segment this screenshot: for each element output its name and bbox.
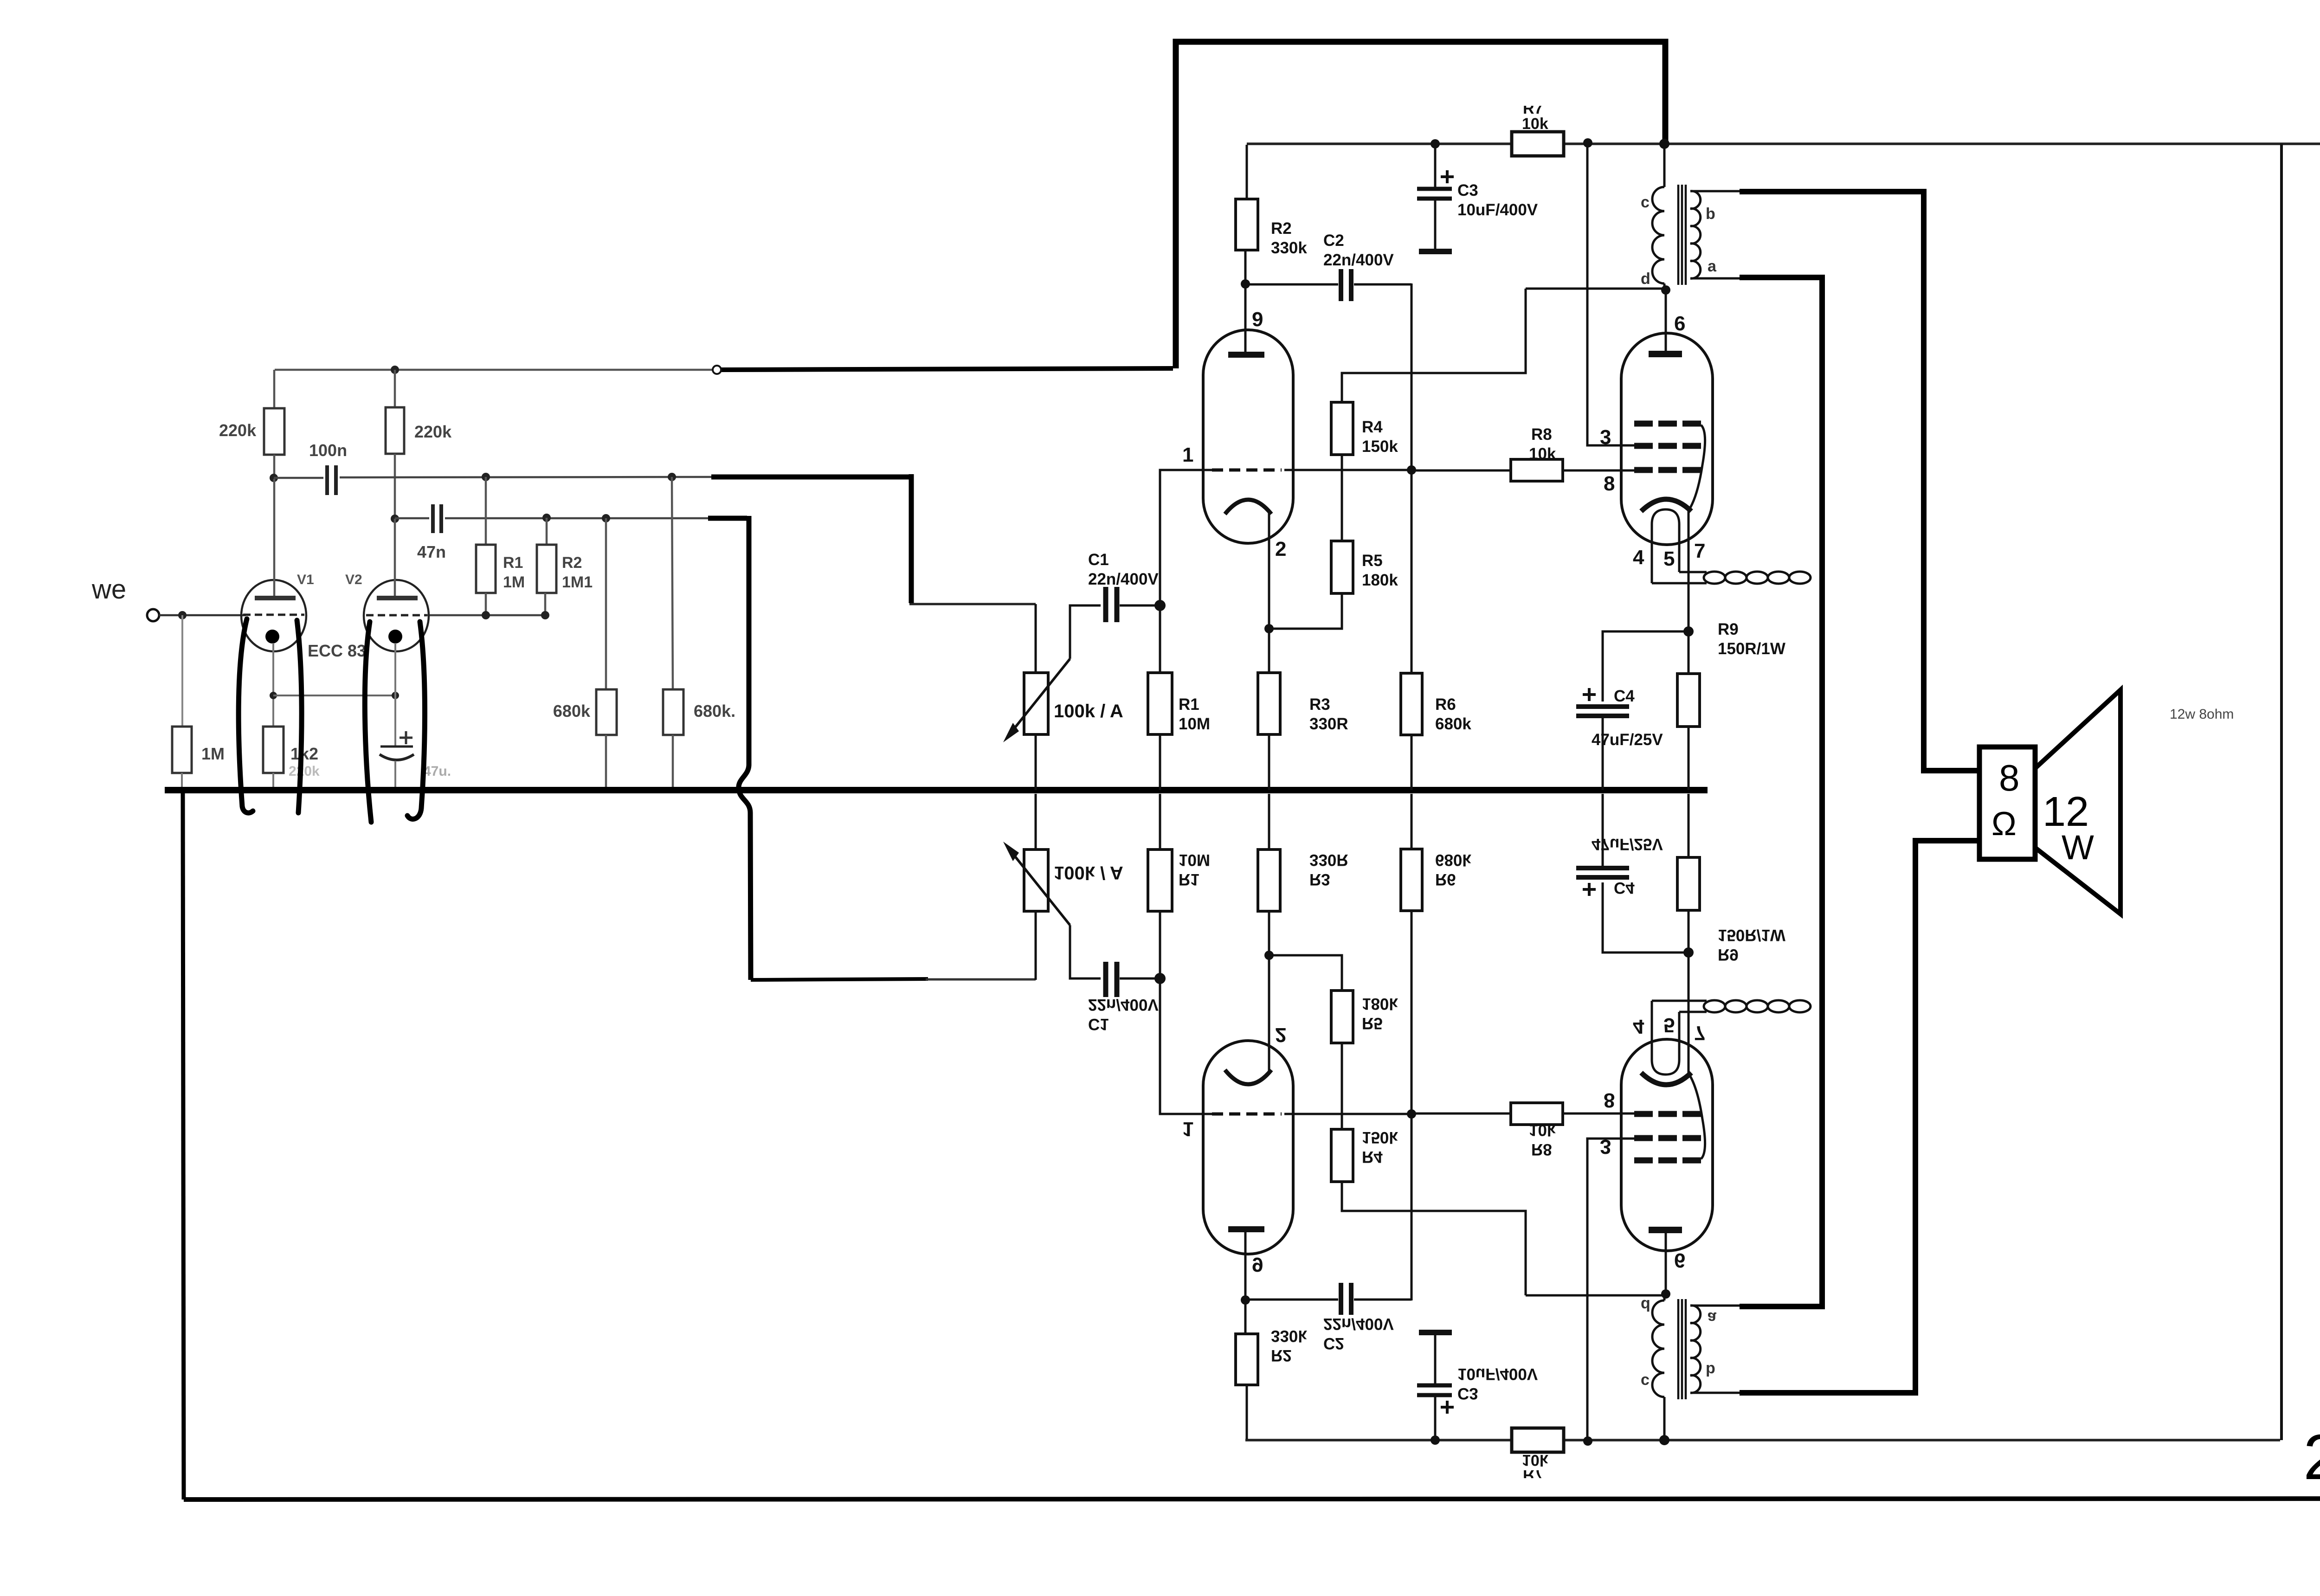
- driver tube cathode lead (lower mirrored): [1268, 955, 1270, 1074]
- resistor R1 10M: [1159, 605, 1161, 673]
- wire pot-top lead (lower mirrored): [1035, 911, 1037, 980]
- svg-text:C2: C2: [1323, 1334, 1344, 1352]
- driver tube cathode lead: [1268, 510, 1270, 629]
- resistor 680k right: [672, 477, 673, 689]
- wire b bottom to speaker: [1740, 841, 1979, 1393]
- resistor 1M input load: [181, 615, 183, 727]
- wire d to feedback tap: [1526, 288, 1666, 290]
- tube V1 (ECC83 a) envelope: [241, 580, 306, 651]
- node driver cathode junction: [1264, 624, 1274, 633]
- svg-text:2: 2: [1275, 1023, 1286, 1046]
- output tube grid strap curve: [1690, 425, 1705, 508]
- svg-text:a: a: [1708, 1309, 1717, 1326]
- wire C1 left lead: [1070, 605, 1101, 659]
- svg-text:47uF/25V: 47uF/25V: [1592, 835, 1663, 853]
- svg-text:C3: C3: [1457, 181, 1478, 199]
- svg-text:R3: R3: [1309, 695, 1330, 714]
- output tube anode bar (lower mirrored): [1649, 1227, 1682, 1233]
- output tube grid row 1 (lower mirrored): [1634, 1158, 1653, 1164]
- wire C4 top link: [1603, 631, 1688, 701]
- hand stroke V1 left: [238, 619, 253, 813]
- wire cathode link: [273, 695, 395, 696]
- svg-text:R5: R5: [1362, 1014, 1383, 1032]
- wire C2 output drop: [1411, 283, 1413, 470]
- wire C1 left lead (lower mirrored): [1070, 925, 1101, 978]
- output tube anode lead pin 6: [1665, 290, 1667, 351]
- wire heater leads: [1652, 582, 1707, 585]
- output tube grid row 1: [1634, 421, 1653, 427]
- wire d to feedback tap (lower mirrored): [1526, 1294, 1666, 1297]
- svg-text:1: 1: [1182, 1118, 1193, 1140]
- wire input-stage supply top: [275, 369, 713, 371]
- wire B+ rail bottom: [1245, 1439, 2280, 1442]
- V2 grid dashes: [366, 614, 427, 617]
- node driver anode junction (lower mirrored): [1241, 1295, 1250, 1305]
- svg-text:R8: R8: [1531, 425, 1552, 444]
- resistor R9 150R/1W: [1688, 631, 1690, 674]
- svg-text:8: 8: [1604, 1089, 1615, 1112]
- wire 220k to anode node: [273, 455, 276, 479]
- svg-text:100k / A: 100k / A: [1054, 862, 1123, 883]
- node 680k right top junction: [668, 473, 676, 481]
- resistor 1k2 cathode: [263, 727, 284, 773]
- output tube grid strap curve (lower mirrored): [1690, 1076, 1705, 1159]
- wire heater leads (lower mirrored): [1652, 1000, 1707, 1002]
- transformer T1 primary winding c-d: [1663, 144, 1666, 187]
- svg-text:4: 4: [1633, 1015, 1644, 1038]
- svg-text:150k: 150k: [1362, 438, 1398, 456]
- svg-text:22n/400V: 22n/400V: [1323, 251, 1394, 269]
- svg-text:10k: 10k: [1529, 445, 1556, 463]
- capacitor C2 22n/400V: [1245, 283, 1338, 286]
- node C1/R1/grid junction (lower mirrored): [1154, 973, 1166, 984]
- V1 anode lead: [273, 479, 276, 596]
- resistor R6 680k (lower mirrored): [1411, 911, 1413, 1114]
- node V1 anode junction: [270, 474, 278, 482]
- svg-text:10uF/400V: 10uF/400V: [1457, 1365, 1538, 1383]
- V2 anode lead inside: [394, 519, 396, 596]
- wire b top to speaker: [1740, 192, 1979, 771]
- wire B+ rail top: [1247, 142, 2320, 145]
- svg-text:220k: 220k: [289, 764, 320, 779]
- wire C4 top link (lower mirrored): [1603, 882, 1688, 952]
- svg-text:100n: 100n: [309, 441, 347, 460]
- svg-text:R2: R2: [1271, 219, 1292, 238]
- node cathode R9/C4 junction (lower mirrored): [1683, 947, 1694, 958]
- svg-text:C2: C2: [1323, 232, 1344, 250]
- svg-text:12w 8ohm: 12w 8ohm: [2170, 707, 2234, 722]
- potentiometer wiper arrow (lower mirrored): [1011, 851, 1070, 925]
- tube V2 (ECC83 b) envelope: [364, 580, 429, 651]
- output tube anode lead pin 6 (lower mirrored): [1665, 1233, 1667, 1294]
- tube V5 output pentode envelope: [1621, 333, 1713, 545]
- resistor R4 150k (lower mirrored): [1331, 1129, 1353, 1182]
- resistor R9 150R/1W (lower mirrored): [1688, 910, 1690, 952]
- wire thick B+ loop to rail: [1176, 42, 1665, 368]
- wire R4-R5 link: [1341, 455, 1343, 541]
- node driver anode junction: [1241, 279, 1250, 289]
- capacitor C1 22n/400V (lower mirrored): [1103, 962, 1108, 997]
- output tube grid row 2: [1634, 443, 1653, 449]
- node 220k right top junction: [391, 366, 399, 374]
- svg-text:W: W: [2062, 828, 2094, 867]
- resistor R8 10k: [1411, 470, 1511, 472]
- svg-text:10k: 10k: [1522, 115, 1548, 133]
- svg-text:5: 5: [1663, 547, 1675, 570]
- resistor R5 180k: [1331, 541, 1353, 593]
- speaker terminal box: [1979, 747, 2035, 859]
- node R2 1M1 top junction: [542, 514, 551, 522]
- wire 240v- return line: [184, 1499, 2320, 1499]
- output tube cathode arc: [1641, 499, 1691, 511]
- wire secondary a thick top: [1740, 275, 1825, 280]
- hand stroke V1 right: [297, 620, 302, 813]
- V2 cathode lead: [394, 643, 396, 747]
- svg-text:6: 6: [1674, 1249, 1685, 1272]
- svg-text:9: 9: [1252, 308, 1263, 331]
- svg-text:1k2: 1k2: [290, 744, 318, 763]
- svg-text:680k.: 680k.: [694, 701, 735, 721]
- svg-text:ECC 83: ECC 83: [308, 641, 366, 660]
- capacitor C3 10uF/400V (lower mirrored): [1434, 1397, 1437, 1440]
- svg-text:a: a: [1708, 257, 1717, 275]
- svg-text:R1: R1: [503, 554, 523, 572]
- svg-text:C1: C1: [1088, 1015, 1109, 1033]
- svg-text:150R/1W: 150R/1W: [1718, 926, 1785, 944]
- V2 anode bar: [377, 596, 418, 600]
- svg-text:V2: V2: [345, 572, 362, 587]
- potentiometer 100k/A body (lower mirrored): [1024, 849, 1048, 911]
- driver tube anode lead (lower mirrored): [1244, 1232, 1247, 1300]
- node output grid junction: [1407, 465, 1416, 475]
- connector ring on supply wire: [713, 366, 721, 374]
- svg-text:330R: 330R: [1309, 715, 1348, 733]
- svg-text:1M: 1M: [201, 744, 225, 763]
- transformer T1 secondary winding b-a (lower mirrored): [1690, 1306, 1701, 1393]
- svg-text:R2: R2: [1271, 1346, 1292, 1364]
- hand stroke V2 left: [365, 622, 371, 822]
- wire driver grid to output grid node (lower mirrored): [1284, 1113, 1411, 1115]
- node C3 junction on supply rail (lower mirrored): [1431, 1435, 1440, 1445]
- svg-text:240: 240: [2303, 1422, 2320, 1493]
- svg-text:d: d: [1641, 270, 1650, 288]
- svg-text:R4: R4: [1362, 1148, 1383, 1166]
- svg-text:3: 3: [1600, 1135, 1611, 1158]
- svg-text:R3: R3: [1309, 870, 1330, 888]
- V1 grid dashes: [243, 614, 304, 616]
- svg-text:220k: 220k: [219, 421, 257, 440]
- node 680k left top junction: [602, 514, 610, 522]
- node input junction: [178, 611, 187, 619]
- svg-text:330k: 330k: [1271, 239, 1307, 257]
- svg-text:180k: 180k: [1362, 995, 1398, 1013]
- transformer T1 secondary winding b-a: [1690, 191, 1701, 278]
- wire R4-R5 link (lower mirrored): [1341, 1043, 1343, 1129]
- resistor R2 330k: [1246, 145, 1248, 199]
- svg-text:R5: R5: [1362, 552, 1383, 570]
- heater twisted pair (lower mirrored): [1704, 1000, 1725, 1012]
- svg-text:5: 5: [1663, 1014, 1675, 1036]
- svg-text:C4: C4: [1614, 879, 1635, 897]
- node R1 bottom on V2 grid: [482, 611, 490, 619]
- tube V3 driver (ECC83 half) envelope: [1203, 330, 1293, 543]
- capacitor C1 22n/400V: [1103, 587, 1108, 622]
- output tube grid row 2 (lower mirrored): [1634, 1135, 1653, 1141]
- svg-text:R1: R1: [1179, 695, 1199, 714]
- resistor 220k (V2 anode load): [394, 370, 396, 407]
- capacitor C4 47uF/25V: [1583, 693, 1596, 696]
- svg-text:680k: 680k: [1435, 851, 1471, 869]
- svg-text:10uF/400V: 10uF/400V: [1457, 201, 1538, 219]
- svg-text:22n/400V: 22n/400V: [1088, 996, 1159, 1014]
- node driver cathode junction (lower mirrored): [1264, 951, 1274, 960]
- svg-text:9: 9: [1252, 1253, 1263, 1276]
- resistor R3 330R: [1268, 629, 1270, 673]
- hand stroke V2 right: [407, 622, 425, 819]
- resistor R2 1M1 grid divider: [546, 518, 548, 545]
- transformer T1 core: [1677, 185, 1680, 285]
- wire secondary a-a tie: [1819, 277, 1825, 1308]
- svg-text:47u.: 47u.: [423, 764, 451, 779]
- wire left ground drop: [183, 792, 184, 1499]
- svg-text:8: 8: [1999, 757, 2020, 798]
- output tube cathode lead pin 7 (lower mirrored): [1688, 952, 1690, 1074]
- svg-text:7: 7: [1694, 540, 1705, 562]
- output tube grid row 3: [1634, 467, 1653, 473]
- transformer T1 core (lower mirrored): [1677, 1299, 1680, 1399]
- svg-text:220k: 220k: [414, 422, 452, 441]
- transformer T1 primary winding c-d (lower mirrored): [1663, 1397, 1666, 1440]
- node R1 1M top junction: [482, 473, 490, 481]
- capacitor 100n coupling: [274, 477, 323, 479]
- output tube heater loop pins 4-5: [1652, 509, 1679, 583]
- svg-text:R6: R6: [1435, 695, 1456, 714]
- svg-text:R9: R9: [1718, 620, 1739, 638]
- wire A lower to pot: [751, 979, 928, 980]
- resistor 680k left: [605, 518, 607, 689]
- output tube heater loop pins 4-5 (lower mirrored): [1652, 1001, 1679, 1075]
- potentiometer wiper arrow: [1011, 659, 1070, 733]
- svg-text:1M1: 1M1: [562, 573, 593, 591]
- svg-text:10k: 10k: [1529, 1121, 1556, 1139]
- node C3 junction on supply rail: [1431, 139, 1440, 148]
- speaker horn: [2035, 690, 2120, 914]
- heater twisted pair: [1704, 572, 1725, 584]
- svg-text:10M: 10M: [1179, 851, 1210, 869]
- svg-text:b: b: [1706, 1361, 1715, 1379]
- svg-text:22n/400V: 22n/400V: [1323, 1315, 1394, 1333]
- wire feedback tap line (lower mirrored): [1342, 1182, 1526, 1295]
- svg-text:180k: 180k: [1362, 571, 1398, 589]
- tube V3 driver (ECC83 half) envelope (lower mirrored): [1203, 1041, 1293, 1254]
- driver tube cathode arc (lower mirrored): [1225, 1070, 1271, 1084]
- node C1/R1/grid junction: [1154, 600, 1166, 611]
- svg-text:c: c: [1641, 193, 1650, 211]
- svg-text:150k: 150k: [1362, 1128, 1398, 1146]
- output tube cathode lead pin 7: [1688, 510, 1690, 631]
- node cathode link left: [270, 692, 277, 699]
- node rail junction right of R7 (lower mirrored): [1583, 1436, 1592, 1446]
- svg-text:7: 7: [1694, 1022, 1705, 1044]
- wire secondary b lead: [1690, 190, 1740, 193]
- node rail junction right of R7: [1583, 138, 1592, 148]
- svg-text:d: d: [1641, 1296, 1650, 1314]
- wire grid feed of driver tube: [1160, 470, 1216, 605]
- resistor R5 180k (lower mirrored): [1331, 991, 1353, 1043]
- capacitor V2 cathode bypass: [400, 737, 412, 739]
- resistor R1 1M grid divider: [485, 477, 487, 545]
- resistor R6 680k: [1411, 470, 1413, 673]
- wire C2 output drop (lower mirrored): [1411, 1114, 1413, 1300]
- svg-text:R1: R1: [1179, 870, 1199, 888]
- wire grid feed of driver tube (lower mirrored): [1160, 978, 1216, 1114]
- node cathode link right: [392, 692, 399, 699]
- svg-text:1: 1: [1182, 444, 1193, 466]
- svg-text:10k: 10k: [1522, 1451, 1548, 1469]
- svg-text:680k: 680k: [553, 701, 591, 721]
- driver tube grid dashes (lower mirrored): [1212, 1113, 1282, 1116]
- node output grid junction (lower mirrored): [1407, 1109, 1416, 1119]
- wire secondary b lead (lower mirrored): [1690, 1392, 1740, 1394]
- svg-text:C4: C4: [1614, 687, 1635, 705]
- svg-text:330k: 330k: [1271, 1327, 1307, 1345]
- svg-text:R9: R9: [1718, 946, 1739, 964]
- svg-text:R6: R6: [1435, 870, 1456, 888]
- node transformer d junction (lower mirrored): [1661, 1289, 1670, 1299]
- tube V5 output pentode envelope (lower mirrored): [1621, 1039, 1713, 1251]
- driver tube anode bar (lower mirrored): [1228, 1226, 1264, 1232]
- resistor 220k (V1 anode load): [273, 370, 276, 408]
- potentiometer bottom lead wire: [1035, 734, 1037, 790]
- driver tube anode lead: [1244, 284, 1247, 352]
- node transformer d junction: [1661, 285, 1670, 295]
- resistor R1 10M (lower mirrored): [1159, 911, 1161, 978]
- svg-text:47uF/25V: 47uF/25V: [1592, 731, 1663, 749]
- wire feedback tap line: [1342, 289, 1526, 402]
- driver tube anode bar: [1228, 352, 1264, 358]
- svg-text:we: we: [91, 574, 126, 605]
- driver tube cathode arc: [1225, 500, 1271, 514]
- resistor R7 10k on supply rail (lower mirrored): [1512, 1428, 1564, 1452]
- svg-text:680k: 680k: [1435, 715, 1471, 733]
- node transformer c junction on rail: [1659, 139, 1669, 149]
- svg-text:100k / A: 100k / A: [1054, 701, 1123, 721]
- wire A to pot top: [909, 603, 1036, 605]
- svg-text:V1: V1: [297, 572, 314, 587]
- capacitor C4 47uF/25V (lower mirrored): [1583, 888, 1596, 891]
- wire input to V1 grid: [159, 614, 246, 617]
- V2 cathode dot: [388, 630, 402, 644]
- output tube anode bar: [1649, 351, 1682, 357]
- svg-text:2: 2: [1275, 538, 1286, 560]
- svg-text:b: b: [1706, 205, 1715, 223]
- svg-text:6: 6: [1674, 312, 1685, 335]
- wire screen grid feed pin 3 (lower mirrored): [1587, 1139, 1638, 1441]
- resistor R7 10k on supply rail: [1512, 132, 1564, 156]
- V1 cathode dot: [265, 630, 279, 644]
- wire V2 grid line: [427, 614, 548, 617]
- wire screen grid feed pin 3: [1587, 143, 1638, 445]
- potentiometer bottom lead wire (lower mirrored): [1035, 794, 1037, 849]
- wire thick V2 output drop to lower pot: [708, 516, 747, 521]
- resistor R4 150k: [1331, 402, 1353, 455]
- potentiometer 100k/A body: [1024, 673, 1048, 734]
- svg-text:4: 4: [1633, 546, 1644, 569]
- svg-text:10M: 10M: [1179, 715, 1210, 733]
- svg-text:C3: C3: [1457, 1384, 1478, 1403]
- wire right supply rail: [2280, 144, 2283, 1440]
- wire thick feedback to top pot: [711, 475, 911, 480]
- wire R5 to cathode (lower mirrored): [1269, 955, 1342, 991]
- wire secondary a lead (lower mirrored): [1690, 1305, 1740, 1307]
- V1 anode bar: [255, 596, 296, 600]
- output tube cathode arc (lower mirrored): [1641, 1073, 1691, 1085]
- svg-text:R8: R8: [1531, 1140, 1552, 1158]
- resistor R8 10k (lower mirrored): [1411, 1113, 1511, 1115]
- input terminal circle: [147, 609, 159, 621]
- wire pot-top lead: [1035, 604, 1037, 673]
- svg-text:C1: C1: [1088, 551, 1109, 569]
- wire secondary a lead: [1690, 277, 1740, 280]
- svg-text:R4: R4: [1362, 418, 1383, 436]
- V1 cathode lead: [272, 643, 274, 727]
- wire driver grid to output grid node: [1284, 469, 1411, 471]
- capacitor C2 22n/400V (lower mirrored): [1245, 1299, 1338, 1301]
- svg-text:47n: 47n: [417, 542, 446, 561]
- capacitor C3 10uF/400V: [1434, 144, 1437, 187]
- svg-text:R2: R2: [562, 554, 582, 572]
- node transformer c junction on rail (lower mirrored): [1659, 1435, 1669, 1445]
- driver tube grid dashes: [1212, 469, 1282, 472]
- node R2 bottom on V2 grid: [541, 611, 549, 619]
- svg-text:3: 3: [1600, 426, 1611, 449]
- resistor R2 330k (lower mirrored): [1246, 1385, 1248, 1439]
- svg-text:1M: 1M: [503, 573, 525, 591]
- svg-text:8: 8: [1604, 472, 1615, 495]
- wire secondary a thick bottom: [1740, 1304, 1825, 1309]
- svg-text:22n/400V: 22n/400V: [1088, 570, 1159, 588]
- node V2 anode junction: [391, 515, 399, 523]
- svg-text:Ω: Ω: [1991, 805, 2017, 843]
- output tube grid row 3 (lower mirrored): [1634, 1111, 1653, 1117]
- wire R5 to cathode: [1269, 593, 1342, 629]
- resistor R3 330R (lower mirrored): [1268, 911, 1270, 955]
- svg-text:150R/1W: 150R/1W: [1718, 640, 1785, 658]
- svg-text:330R: 330R: [1309, 851, 1348, 869]
- capacitor 47n coupling: [395, 517, 429, 520]
- svg-text:c: c: [1641, 1373, 1650, 1390]
- ground bus rail: [165, 787, 1708, 793]
- node cathode R9/C4 junction: [1683, 626, 1694, 637]
